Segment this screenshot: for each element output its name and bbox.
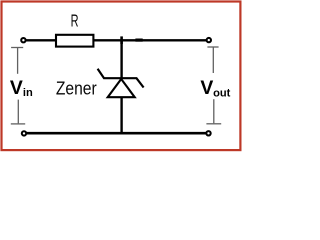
wire: input terminal to resistor: [26, 39, 56, 41]
terminal circle top-right: [207, 38, 211, 42]
label Zener: [56, 78, 97, 98]
Vout dimension line lower segment: [213, 99, 215, 123]
zener diode D1 triangle: [108, 79, 135, 97]
wire: resistor to node A and output terminal: [94, 39, 207, 41]
wire: thick dash segment on top wire: [135, 39, 142, 42]
svg-text:Zener: Zener: [56, 78, 97, 98]
Vin dimension line upper segment: [17, 48, 19, 74]
resistor R: [56, 35, 93, 47]
terminal circle bottom-right: [206, 131, 210, 135]
zener diode D1 cathode bar: [98, 69, 144, 88]
terminal circle bottom-left: [22, 131, 26, 135]
Vout dimension line upper segment: [212, 47, 214, 73]
Vin dimension cap bottom: [11, 123, 25, 125]
wire: zener branch lower: [120, 97, 122, 133]
node A junction stub: [120, 36, 123, 44]
Vin dimension line lower segment: [17, 100, 19, 124]
Vin dimension cap top: [11, 47, 23, 49]
Vout dimension cap top: [207, 46, 218, 48]
label R: [71, 11, 79, 31]
svg-text:V: V: [200, 77, 213, 99]
svg-text:V: V: [10, 77, 23, 99]
wire: bottom rail: [26, 132, 206, 135]
svg-text:out: out: [213, 88, 231, 100]
Vout dimension cap bottom: [206, 123, 221, 125]
frame border: [2, 2, 241, 151]
wire: zener branch upper: [120, 40, 122, 78]
terminal circle top-left: [21, 38, 25, 42]
svg-text:in: in: [23, 87, 33, 99]
svg-text:R: R: [71, 11, 79, 31]
